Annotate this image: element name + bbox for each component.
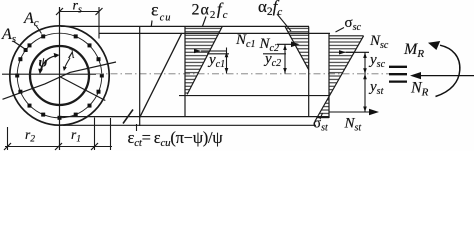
strain panel left edge: [139, 26, 141, 126]
wire: bottom fibre line (tangent to circle bottom): [63, 124, 316, 126]
wire: inclined neutral axis line through centre: [3, 62, 117, 99]
wire: bottom rebar level line: [59, 116, 329, 118]
force arrow N_c2 (points right): [277, 43, 296, 45]
panel edge at x=308.7: [308, 27, 310, 117]
steel tension stress triangle sigma_st: [316, 96, 329, 118]
svg-text:Nsc: Nsc: [369, 33, 389, 51]
concrete stress block 2 (alpha2 fc): [285, 27, 309, 70]
svg-text:σsc: σsc: [345, 15, 362, 33]
rebar dots on ring: [15, 34, 104, 119]
wire: dash-dot centroidal axis: [96, 73, 389, 75]
svg-text:r1: r1: [71, 127, 81, 145]
wire: leader sigma_sc: [336, 28, 345, 33]
slash tick at tension corner: [123, 110, 133, 124]
rebar ring circle: [17, 33, 102, 118]
svg-text:MR: MR: [403, 41, 424, 60]
wire: lambda arrow to centre: [65, 58, 71, 69]
svg-text:Nst: Nst: [344, 116, 362, 134]
steel panel vertical: [328, 34, 330, 119]
angle psi arc with arrow: [40, 56, 56, 73]
inner hole circle: [30, 46, 89, 105]
svg-text:2α2fc: 2α2fc: [192, 0, 229, 21]
wire: leader from A_s to rebar dot: [13, 41, 25, 49]
svg-text:εct= εcu(π−ψ)/ψ: εct= εcu(π−ψ)/ψ: [128, 128, 224, 149]
wire: tick line above y_c2: [263, 53, 286, 55]
force arrow N_R (points left): [415, 75, 474, 77]
wire: leader from A_c label: [36, 26, 42, 34]
outer circle (section boundary): [10, 26, 109, 125]
svg-text:rs: rs: [73, 0, 82, 16]
neutral axis depth line: [179, 95, 329, 97]
force arrow N_st (points right): [329, 111, 374, 113]
strain diagram diagonal: [140, 33, 182, 117]
svg-text:r2: r2: [25, 127, 35, 145]
force arrow N_sc (points left): [346, 51, 369, 53]
dimension y_c2: [284, 44, 286, 73]
wire: leader sigma_st: [320, 113, 323, 119]
svg-text:εcu: εcu: [151, 0, 171, 23]
svg-text:Nc1: Nc1: [235, 32, 255, 50]
svg-text:ysc: ysc: [368, 52, 386, 70]
dimension r_s: line, ticks, label: [60, 11, 100, 13]
wire: leader epsilon_ct: [136, 124, 138, 131]
svg-text:yst: yst: [368, 79, 384, 97]
dimension r2 r1 at bottom: [5, 146, 112, 148]
wire: leader epsilon_cu: [150, 21, 153, 27]
wire: top rebar level line: [99, 32, 331, 34]
svg-text:ψ: ψ: [39, 55, 49, 70]
wire: tick line above y_c1: [207, 53, 229, 55]
concrete stress block 1 (2 alpha2 fc): [185, 26, 222, 94]
wire: leader 2a2fc: [203, 17, 207, 27]
wire: radial line to lower right: [60, 77, 106, 101]
dimension y_c1: [226, 48, 228, 74]
steel compression stress triangle sigma_sc: [329, 36, 364, 96]
svg-text:NR: NR: [410, 80, 429, 99]
moment arrow M_R (curved): [436, 45, 460, 96]
force arrow N_c1 (points left): [201, 50, 227, 52]
wire: leader a2fc: [277, 14, 291, 31]
wire: vertical centre line of section: [59, 7, 61, 150]
wire: horizontal diameter: [2, 73, 96, 75]
svg-text:yc1: yc1: [207, 52, 225, 70]
dimension y_sc / y_st vertical: [364, 52, 366, 112]
wire: top fibre line (tangent to circle top): [61, 25, 310, 27]
equivalence sign: [389, 67, 407, 82]
steel stress diagonal: [315, 36, 364, 122]
